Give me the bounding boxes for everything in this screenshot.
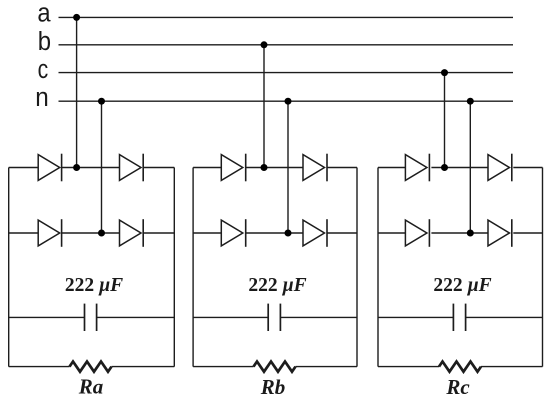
wire bus a	[59, 16, 514, 18]
diode D6b bridge3 row2	[488, 220, 510, 246]
wire bridge3 row1	[378, 167, 405, 169]
wire n drop to bridge 1	[101, 101, 103, 233]
junction bridge3 row1 node c	[441, 164, 448, 171]
capacitor C3	[378, 316, 453, 318]
junction n bus 3	[467, 98, 474, 105]
junction n bus 1	[98, 98, 105, 105]
diode D2a bridge1 row2	[38, 220, 60, 246]
wire bus c	[59, 72, 514, 74]
junction a bus	[73, 14, 80, 21]
wire bridge3 bottom	[378, 366, 439, 368]
wire bus b	[59, 44, 514, 46]
diode D3a bridge2 row1	[221, 155, 243, 181]
capacitor C2	[193, 316, 268, 318]
diode D6a bridge3 row2	[405, 220, 427, 246]
wire c drop to bridge 3	[444, 73, 446, 168]
diode D4b bridge2 row2	[303, 220, 325, 246]
junction bridge3 row2 node n	[467, 230, 474, 237]
diode D5a bridge3 row1	[405, 155, 427, 181]
diode D1b bridge1 row1	[120, 155, 142, 181]
diode D4a bridge2 row2	[221, 220, 243, 246]
diode D5b bridge3 row1	[488, 155, 510, 181]
diode D1a bridge1 row1	[38, 155, 60, 181]
svg-text:222 µF: 222 µF	[248, 275, 306, 296]
resistor Rb	[254, 362, 296, 372]
junction bridge2 row1 node b	[261, 164, 268, 171]
svg-text:222 µF: 222 µF	[433, 275, 491, 296]
wire bridge1 bottom	[9, 366, 70, 368]
wire b drop to bridge 2	[263, 45, 265, 168]
capacitor C1	[9, 316, 85, 318]
svg-text:n: n	[35, 84, 49, 112]
svg-text:222 µF: 222 µF	[65, 275, 123, 296]
svg-text:b: b	[38, 28, 51, 56]
junction bridge2 row2 node n	[285, 230, 292, 237]
bridge 2 box outline	[192, 168, 194, 367]
junction c bus	[441, 69, 448, 76]
wire bridge1 row1	[9, 167, 39, 169]
wire bridge1 row2	[9, 232, 39, 234]
junction bridge1 row2 node n	[98, 230, 105, 237]
junction n bus 2	[285, 98, 292, 105]
wire bridge2 row1	[193, 167, 221, 169]
junction b bus	[261, 41, 268, 48]
resistor Ra	[70, 362, 112, 372]
diode D2b bridge1 row2	[120, 220, 142, 246]
diode D3b bridge2 row1	[303, 155, 325, 181]
wire bus n	[59, 100, 514, 102]
svg-text:c: c	[38, 56, 49, 84]
wire bridge2 row2	[193, 232, 221, 234]
wire bridge3 row2	[378, 232, 405, 234]
svg-text:Ra: Ra	[78, 375, 104, 399]
wire n drop to bridge 2	[287, 101, 289, 233]
svg-text:a: a	[37, 0, 51, 28]
svg-text:Rb: Rb	[260, 375, 286, 399]
bridge 1 box outline	[8, 168, 10, 367]
junction bridge1 row1 node a	[73, 164, 80, 171]
wire n drop to bridge 3	[469, 101, 471, 233]
wire bridge2 bottom	[193, 366, 253, 368]
bridge 3 box outline	[377, 168, 379, 367]
wire a drop to bridge 1	[76, 17, 78, 167]
resistor Rc	[439, 362, 481, 372]
svg-text:Rc: Rc	[445, 375, 470, 399]
